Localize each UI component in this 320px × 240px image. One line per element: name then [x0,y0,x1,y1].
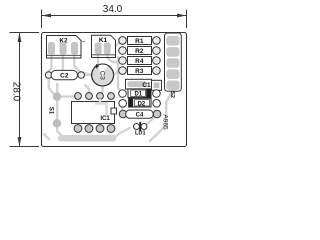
svg-text:A965: A965 [162,114,169,130]
wire bottom band [61,135,113,142]
wire S1 vertical [56,84,58,123]
wire bottom-right diagonal to connector [150,94,171,142]
switch S1 pads [48,92,62,127]
wire K1 pad2 to vertical net [108,54,119,62]
connector K2 [47,36,86,59]
wire LD1 right pad to C4 right pad [144,115,157,127]
svg-text:R1: R1 [135,38,144,45]
connector S2 (edge pads) [165,33,182,98]
dimension 28.0 extension line bottom [10,146,40,148]
svg-text:C3: C3 [99,71,106,81]
svg-text:C1: C1 [142,82,151,89]
wire D1 right pad up [156,86,160,93]
capacitor C4 [119,110,161,119]
svg-text:LD1: LD1 [135,131,146,137]
svg-text:34.0: 34.0 [103,4,123,15]
dimension 34.0 line [42,15,187,17]
square pad (C1 +) [152,80,162,90]
IC IC1 [72,93,117,133]
svg-text:R2: R2 [135,48,144,55]
wire C3 bottom to IC1 pin [100,86,103,94]
board outline [42,33,187,147]
svg-text:R4: R4 [135,58,144,65]
svg-text:S2: S2 [169,91,175,98]
svg-text:S1: S1 [48,107,54,115]
svg-text:28.0: 28.0 [11,82,22,102]
wire C3 to R3 left pad [114,71,123,75]
capacitor C3 (electrolytic) [92,64,114,86]
wire band to LED LD1 [113,128,130,138]
dimension arrow top of 28.0 [18,33,22,43]
wire K2 pad2 down [62,54,64,70]
resistor R3 [119,67,161,76]
wire D2 left pad to C4 left pad [121,103,124,113]
resistor R4 [119,57,161,66]
IC1 bottom pads [74,125,82,133]
wire K2 pad1 to C2 left pad [49,54,52,74]
dimension arrow right of 34.0 [177,14,187,18]
IC1 pin1 notch [111,108,117,114]
svg-text:R3: R3 [135,68,144,75]
LED LD1 [134,122,148,137]
wire S1 bottom pad to bottom band [57,123,62,136]
wire under IC1 body [95,104,107,117]
svg-text:C2: C2 [60,73,69,80]
dimension arrow bottom of 28.0 [18,137,22,147]
svg-text:C4: C4 [136,113,144,119]
connector K1 [92,35,116,57]
svg-text:IC1: IC1 [100,116,110,122]
svg-text:D2: D2 [138,101,146,107]
wire C2 left pad down to S1 top pad [49,78,54,94]
wire C2 right pad to C3 [81,74,91,76]
wire to R1 left pad [116,41,122,46]
traces group (light gray copper) [44,41,171,141]
wire stub right of K2 [81,41,85,43]
diode D2 [119,98,161,107]
diode D1 [119,89,161,98]
dimension 34.0 extension line left [10,10,187,147]
capacitor C2 [45,70,84,79]
wire vertical net right of C3 to D1 left pad [118,57,122,92]
resistor R2 [119,47,161,56]
wire bottom-left stub [44,134,49,139]
capacitor C1 [126,79,162,90]
wire K1 pad1 down into C3 [97,54,99,64]
dimension 34.0 extension line right [186,10,188,29]
dimension arrow left of 34.0 [42,14,52,18]
dimension 28.0 line [19,33,21,147]
dimension 28.0 extension line top [10,32,40,34]
wire K2 pad3 to C3 [74,54,91,75]
IC1 body [72,102,115,124]
wire S1 top pad to IC1 pin [57,95,74,97]
wire IC1 pin2 up [85,85,89,96]
svg-text:D1: D1 [134,92,142,98]
IC1 top pads [75,93,82,100]
resistor R1 [119,37,161,46]
